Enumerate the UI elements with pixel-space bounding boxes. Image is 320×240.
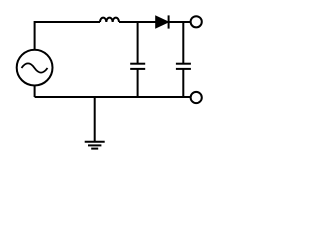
ground	[85, 142, 105, 149]
wire: source bottom lead to bottom rail	[34, 86, 36, 98]
inductor L1	[100, 18, 119, 22]
wire: C2 bottom lead to bottom rail	[182, 69, 184, 97]
diode D1	[156, 15, 169, 28]
wire: C1 top lead from top rail	[137, 22, 139, 64]
wire: diode cathode to top output terminal (junction with C2 at x=183.3)	[169, 21, 191, 23]
terminal: top output (open circle)	[191, 16, 202, 27]
AC source V1	[17, 50, 53, 86]
wire: bottom rail from source to bottom output terminal	[35, 96, 191, 98]
capacitor C1	[130, 64, 145, 69]
wire: inductor to diode anode (junction with C1 at x=137.6)	[119, 21, 156, 23]
wire: C2 top lead from top rail	[182, 22, 184, 64]
wire: C1 bottom lead to bottom rail	[137, 69, 139, 97]
terminal: bottom output (open circle)	[191, 92, 202, 103]
wire: source top lead up and right to inductor	[35, 22, 100, 50]
capacitor C2	[176, 64, 191, 69]
wire: ground stub from bottom rail	[94, 97, 96, 142]
